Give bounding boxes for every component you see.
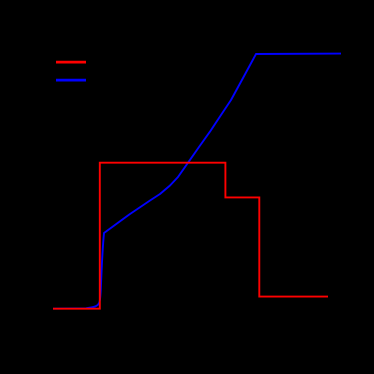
legend red line bbox=[56, 61, 86, 64]
red PDF step curve bbox=[53, 163, 328, 309]
legend blue line bbox=[56, 79, 86, 82]
blue CDF curve bbox=[53, 54, 341, 309]
